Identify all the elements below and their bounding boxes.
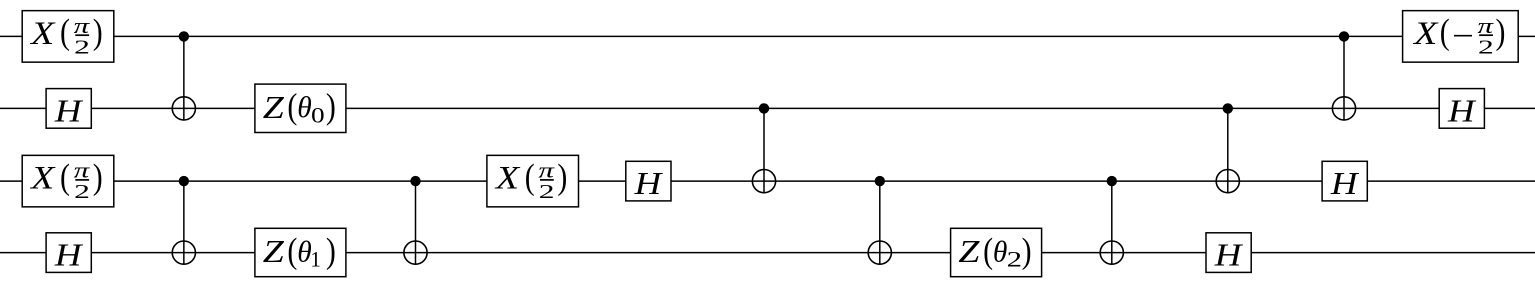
gate Z(theta1) on q3 — [255, 228, 346, 276]
svg-text:π: π — [1478, 13, 1495, 38]
CNOT control dot on q2 — [1107, 176, 1117, 186]
svg-text:0: 0 — [311, 104, 325, 128]
wire CNOT vertical q2-q3 — [183, 181, 185, 265]
svg-text:X: X — [1412, 14, 1439, 51]
CNOT target on q3 — [868, 241, 891, 264]
svg-text:θ: θ — [297, 91, 311, 124]
CNOT control dot on q2 — [410, 176, 420, 186]
CNOT control dot on q2 — [875, 176, 885, 186]
CNOT target on q3 — [1100, 241, 1123, 264]
wire CNOT vertical q0-q1 — [183, 36, 185, 120]
wire q3 — [0, 252, 1535, 254]
svg-text:π: π — [538, 158, 555, 183]
svg-text:(: ( — [60, 158, 70, 197]
svg-text:H: H — [1330, 166, 1360, 201]
wire q1 — [0, 107, 1535, 109]
gate H on q2 (2nd) — [1322, 161, 1367, 201]
CNOT control dot on q1 — [1223, 103, 1233, 113]
svg-text:): ) — [1022, 232, 1032, 271]
gate H on q3 — [46, 233, 91, 273]
svg-text:): ) — [1495, 13, 1505, 52]
svg-text:H: H — [54, 238, 84, 273]
gate X(pi/2) on q2 — [22, 155, 114, 207]
gate Z(theta0) on q1 — [255, 84, 346, 132]
svg-text:(: ( — [60, 13, 70, 52]
gate X(pi/2) on q2 (2nd) — [487, 155, 579, 207]
CNOT target on q2 — [752, 170, 775, 193]
wire CNOT vertical q0-q1 — [1343, 36, 1345, 120]
gate H on q1 — [46, 89, 91, 129]
gate X(pi/2) on q0 — [22, 11, 114, 63]
svg-text:H: H — [634, 166, 664, 201]
svg-text:2: 2 — [1007, 247, 1022, 272]
CNOT control dot on q0 — [179, 31, 189, 41]
CNOT control dot on q1 — [759, 103, 769, 113]
svg-text:2: 2 — [74, 180, 90, 203]
CNOT control dot on q2 — [179, 176, 189, 186]
wire CNOT vertical q2-q3 — [1111, 181, 1113, 265]
minus sign — [1454, 35, 1472, 37]
svg-text:Z: Z — [263, 89, 285, 125]
svg-text:2: 2 — [74, 35, 90, 58]
svg-text:Z: Z — [263, 234, 285, 270]
svg-text:(: ( — [983, 232, 993, 271]
wire CNOT vertical q2-q3 — [879, 181, 881, 265]
svg-text:): ) — [326, 232, 336, 271]
svg-text:H: H — [1447, 94, 1477, 129]
svg-text:π: π — [74, 158, 91, 183]
svg-text:H: H — [54, 94, 84, 129]
svg-text:2: 2 — [1478, 35, 1494, 58]
svg-text:(: ( — [1440, 13, 1450, 52]
svg-text:X: X — [494, 159, 521, 196]
wire q0 — [0, 35, 1535, 37]
wire q2 — [0, 180, 1535, 182]
svg-text:X: X — [29, 159, 56, 196]
gate H on q2 — [626, 161, 671, 201]
svg-text:): ) — [326, 88, 336, 127]
CNOT target on q2 — [1216, 170, 1239, 193]
svg-text:(: ( — [287, 232, 297, 271]
svg-text:H: H — [1214, 238, 1244, 273]
CNOT control dot on q0 — [1339, 31, 1349, 41]
svg-text:): ) — [557, 158, 567, 197]
wire CNOT vertical q2-q3 — [415, 181, 417, 265]
svg-text:X: X — [29, 14, 56, 51]
svg-text:2: 2 — [539, 180, 555, 203]
gate Z(theta2) on q3 — [951, 228, 1042, 276]
svg-text:Z: Z — [958, 234, 980, 270]
svg-text:(: ( — [287, 88, 297, 127]
CNOT target on q1 — [1332, 97, 1355, 120]
svg-text:1: 1 — [310, 247, 320, 272]
svg-text:): ) — [93, 158, 103, 197]
CNOT target on q1 — [172, 97, 195, 120]
svg-text:θ: θ — [993, 235, 1007, 268]
svg-text:π: π — [74, 13, 91, 38]
CNOT target on q3 — [404, 241, 427, 264]
wire CNOT vertical q1-q2 — [763, 108, 765, 193]
gate X(-pi/2) on q0 — [1403, 11, 1519, 63]
svg-text:(: ( — [525, 158, 535, 197]
svg-text:): ) — [93, 13, 103, 52]
CNOT target on q3 — [172, 241, 195, 264]
gate H on q1 (2nd) — [1439, 89, 1484, 129]
wire CNOT vertical q1-q2 — [1227, 108, 1229, 193]
gate H on q3 (2nd) — [1206, 233, 1251, 273]
